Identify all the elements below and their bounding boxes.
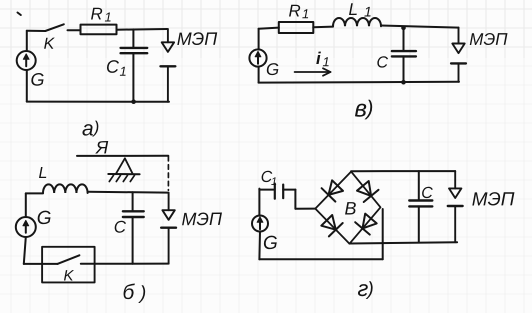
svg-text:K: K (63, 267, 74, 284)
svg-text:C: C (114, 218, 127, 237)
svg-text:): ) (138, 283, 146, 304)
svg-text:в: в (354, 95, 367, 122)
svg-text:K: K (44, 36, 56, 53)
svg-text:C: C (421, 185, 433, 202)
svg-text:б: б (122, 281, 135, 304)
svg-text:1: 1 (302, 6, 309, 21)
svg-text:1: 1 (104, 9, 111, 24)
svg-text:G: G (30, 70, 44, 90)
svg-text:1: 1 (119, 64, 126, 79)
svg-text:L: L (348, 0, 358, 19)
svg-text:G: G (266, 60, 279, 79)
svg-text:C: C (106, 57, 120, 77)
svg-text:): ) (92, 118, 100, 137)
svg-text:1: 1 (322, 54, 329, 69)
svg-text:МЭП: МЭП (181, 209, 223, 229)
svg-text:G: G (37, 208, 52, 229)
svg-text:L: L (38, 165, 47, 182)
svg-text:R: R (90, 4, 102, 23)
svg-text:C: C (376, 54, 388, 71)
svg-text:1: 1 (364, 3, 372, 19)
svg-text:В: В (344, 198, 356, 218)
svg-text:i: i (316, 49, 322, 68)
svg-text:МЭП: МЭП (177, 29, 219, 49)
svg-text:G: G (263, 233, 278, 254)
svg-text:МЭП: МЭП (469, 30, 508, 49)
svg-text:1: 1 (271, 176, 277, 188)
svg-text:): ) (365, 279, 373, 300)
svg-text:а: а (82, 117, 94, 140)
svg-text:МЭП: МЭП (472, 189, 515, 210)
svg-text:Я: Я (95, 137, 109, 157)
svg-text:R: R (288, 1, 300, 20)
